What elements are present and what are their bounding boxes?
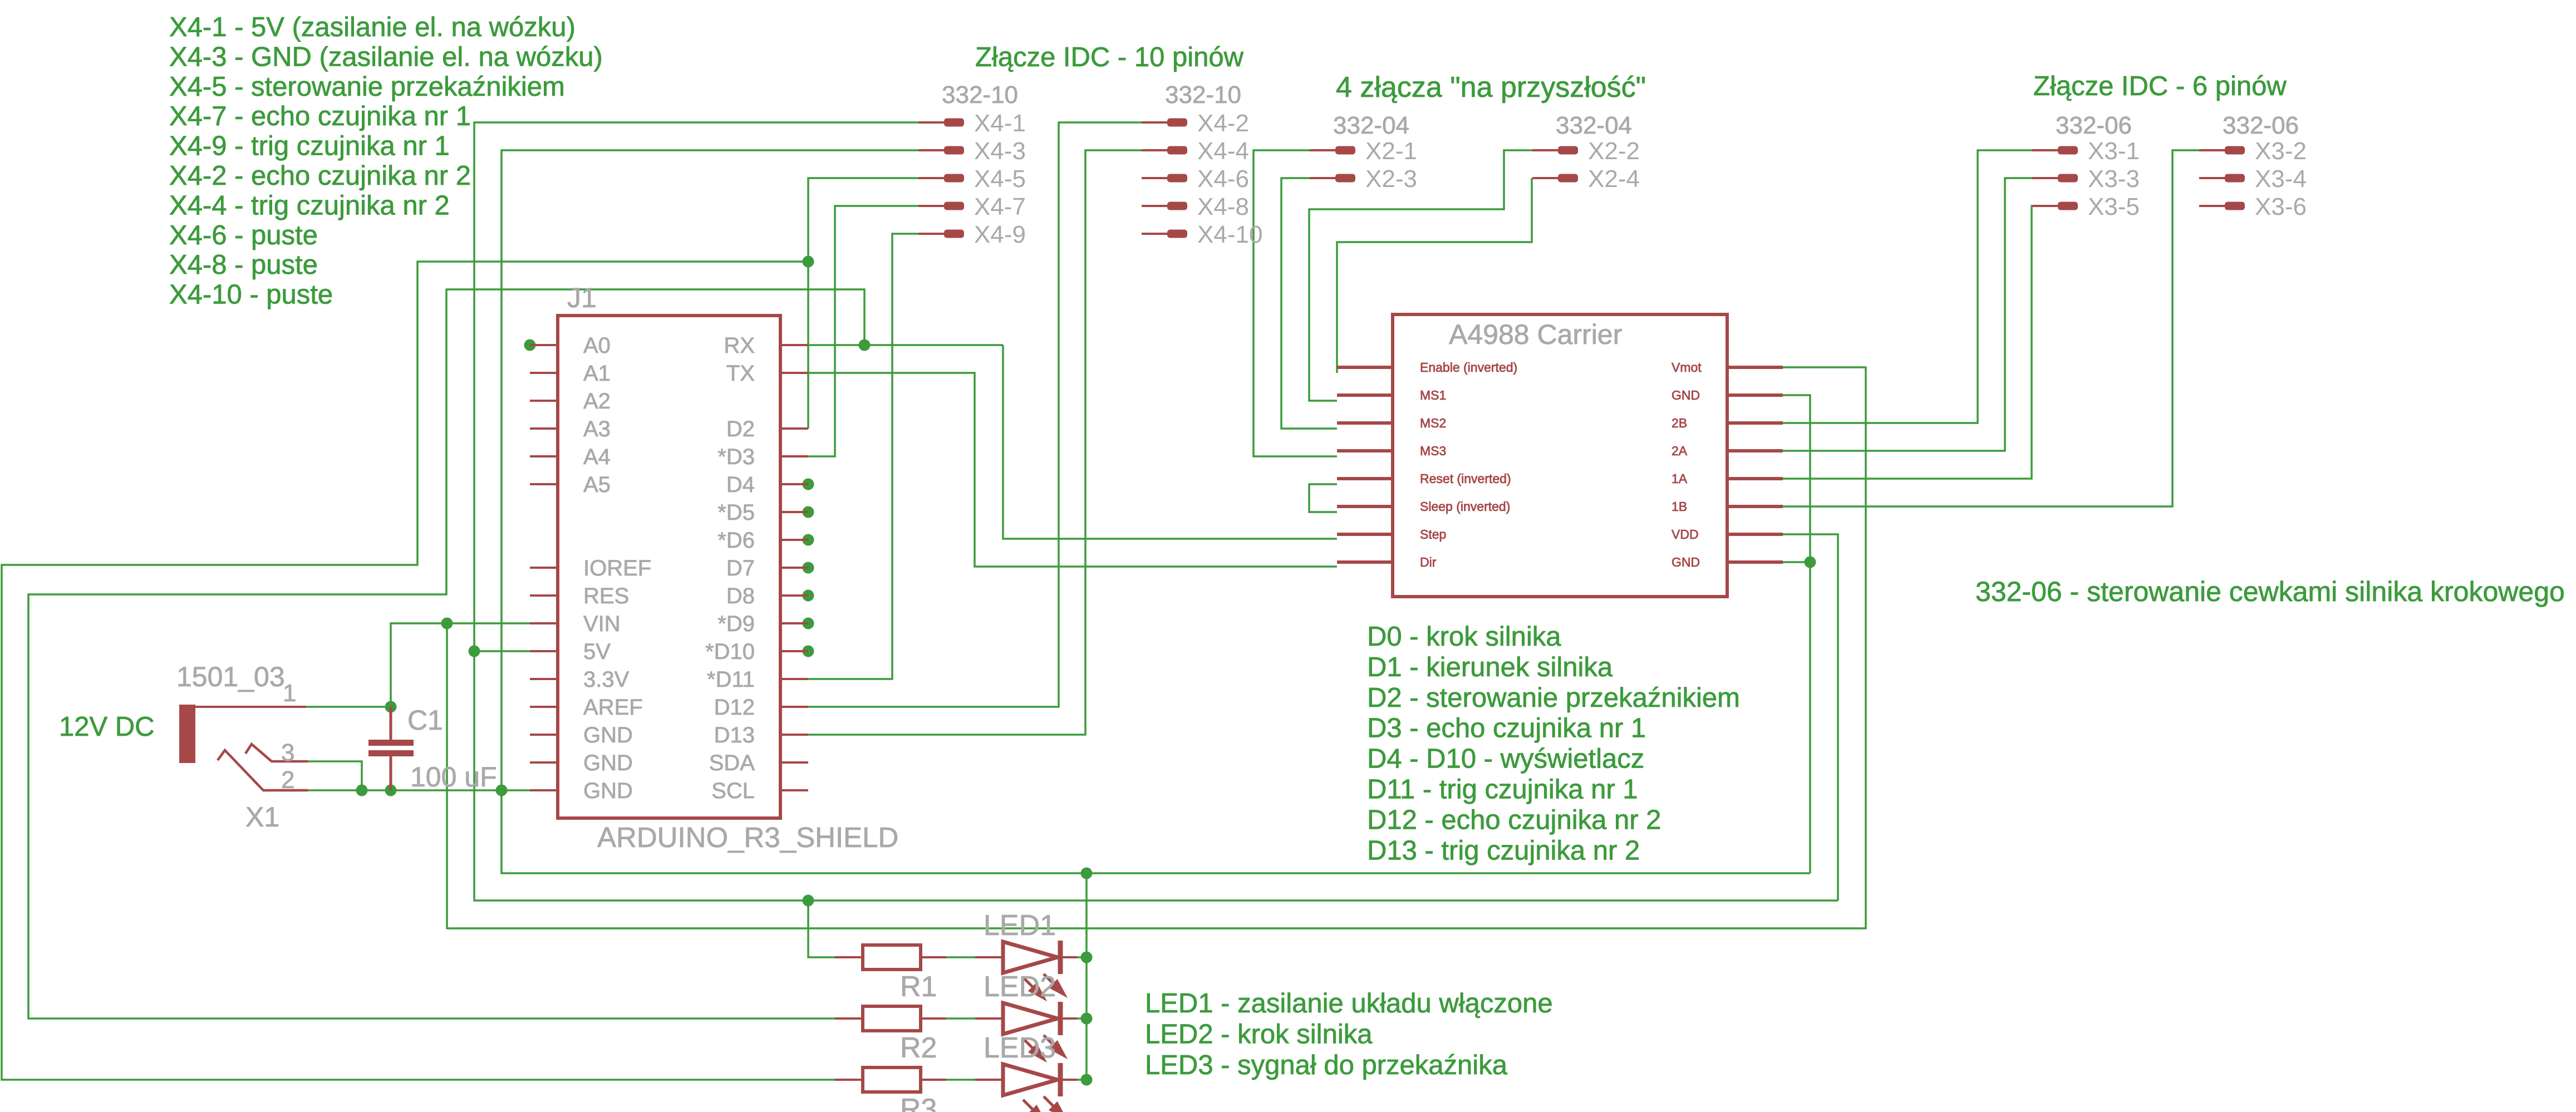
connector pin X3-6 <box>2199 193 2307 220</box>
svg-text:D2 - sterowanie przekaźnikiem: D2 - sterowanie przekaźnikiem <box>1367 683 1740 713</box>
pin J1 D13 stub <box>780 734 808 736</box>
svg-text:Złącze IDC - 6 pinów: Złącze IDC - 6 pinów <box>2033 71 2287 101</box>
wire 2A to X3-3 <box>1783 178 2032 451</box>
svg-text:D4: D4 <box>726 473 755 497</box>
svg-text:Dir: Dir <box>1420 555 1437 569</box>
svg-text:Step: Step <box>1420 527 1446 542</box>
wire R2 to LED2 <box>946 1017 975 1020</box>
connector pin X3-5 <box>2032 193 2140 220</box>
svg-text:D12: D12 <box>714 695 755 720</box>
svg-text:SDA: SDA <box>709 751 755 775</box>
svg-text:LED1: LED1 <box>984 909 1056 942</box>
node D5 display junction <box>803 506 814 518</box>
jack X1 body <box>179 705 195 763</box>
svg-text:Złącze IDC - 10 pinów: Złącze IDC - 10 pinów <box>975 42 1244 72</box>
svg-text:A5: A5 <box>583 473 611 497</box>
node LED2 cathode junction <box>1081 1013 1093 1025</box>
svg-text:A0: A0 <box>583 333 611 358</box>
pin J1 TX stub <box>780 372 808 374</box>
svg-text:X4-4: X4-4 <box>1197 137 1249 165</box>
pin A4988 Reset (inverted) stub <box>1337 477 1393 480</box>
pin A4988 MS1 stub <box>1337 393 1393 397</box>
svg-text:LED2 - krok silnika: LED2 - krok silnika <box>1145 1020 1373 1050</box>
node GND pin3 junction <box>356 785 368 796</box>
node D7 display junction <box>803 562 814 574</box>
pin J1 A3 stub <box>530 427 558 430</box>
resistor R3 body <box>863 1067 921 1092</box>
svg-text:X4-1: X4-1 <box>974 110 1026 137</box>
svg-text:X4-3: X4-3 <box>974 137 1026 165</box>
svg-text:LED2: LED2 <box>984 971 1056 1003</box>
wire D2 X4-5 <box>808 178 918 429</box>
capacitor C1 bottom lead <box>390 756 392 790</box>
svg-text:3.3V: 3.3V <box>583 667 630 692</box>
LED3 cathode lead <box>1060 1079 1077 1081</box>
svg-text:X4-2: X4-2 <box>1197 110 1249 137</box>
svg-text:12V DC: 12V DC <box>59 712 155 742</box>
svg-text:1B: 1B <box>1672 499 1687 514</box>
svg-text:SCL: SCL <box>711 779 755 803</box>
pin J1 D7 stub <box>780 567 808 569</box>
svg-text:VIN: VIN <box>583 612 621 636</box>
resistor R1 leads <box>835 956 946 958</box>
wire 5V row to J1 <box>474 650 530 652</box>
pin J1 *D11 stub <box>780 678 808 680</box>
pin J1 A4 stub <box>530 455 558 457</box>
pin J1 A1 stub <box>530 372 558 374</box>
LED3 emission arrows <box>1023 1096 1064 1112</box>
LED1 emission arrows <box>1023 974 1064 998</box>
svg-text:LED3: LED3 <box>984 1032 1056 1064</box>
svg-text:VDD: VDD <box>1672 527 1699 542</box>
svg-text:D12 - echo czujnika nr 2: D12 - echo czujnika nr 2 <box>1367 805 1661 835</box>
pin J1 3.3V stub <box>530 678 558 680</box>
wire D11 X4-9 <box>808 234 918 679</box>
wire 2B to X3-1 <box>1783 150 2032 423</box>
LED1 cathode bar <box>1058 941 1063 974</box>
pin J1 A0 stub <box>530 344 558 346</box>
svg-text:332-10: 332-10 <box>1165 81 1241 109</box>
wire X2-2 to MS1 <box>1309 150 1532 401</box>
svg-text:D3 - echo czujnika nr 1: D3 - echo czujnika nr 1 <box>1367 714 1646 744</box>
pin A4988 1A right stub <box>1727 477 1783 480</box>
wire jack pin3 to GND row <box>306 761 362 790</box>
wire LED1 to cathode rail <box>1077 956 1087 958</box>
node GND C1 junction <box>385 785 397 796</box>
svg-text:GND: GND <box>583 723 633 747</box>
wire 5V branch to R1 <box>808 901 835 957</box>
svg-text:GND: GND <box>583 751 633 775</box>
svg-text:X1: X1 <box>245 801 279 833</box>
connector pin X3-2 <box>2199 137 2307 165</box>
shield J1 outline <box>558 316 780 818</box>
connector pin X4-6 <box>1142 165 1249 193</box>
connector pin X4-5 <box>918 165 1026 193</box>
wire D13 to X4-4 <box>808 150 1142 735</box>
capacitor C1 plates <box>368 740 414 756</box>
pin J1 *D10 stub <box>780 650 808 652</box>
svg-text:5V: 5V <box>583 639 611 664</box>
pin A4988 GND right stub <box>1727 560 1783 564</box>
svg-text:1A: 1A <box>1672 471 1688 486</box>
node D6 display junction <box>803 534 814 546</box>
jack X1 pin3 contact <box>245 744 308 761</box>
svg-text:A4: A4 <box>583 445 611 469</box>
svg-text:100 uF: 100 uF <box>410 761 497 793</box>
wire 5V X4-1 <box>474 122 1838 901</box>
svg-text:X3-2: X3-2 <box>2255 137 2307 165</box>
wire R3 to LED3 <box>946 1079 975 1081</box>
svg-text:*D10: *D10 <box>705 639 755 664</box>
wire LED2 to cathode rail <box>1077 1017 1087 1020</box>
resistor R3 leads <box>835 1079 946 1081</box>
wire 1A to X3-5 <box>1783 206 2032 479</box>
svg-text:X4-9: X4-9 <box>974 221 1026 248</box>
node GND A4988 junction <box>1805 557 1816 568</box>
wire GND jack row <box>306 789 530 791</box>
svg-text:D2: D2 <box>726 417 755 441</box>
jack X1 pin2 contact <box>218 750 308 790</box>
svg-text:*D3: *D3 <box>717 445 755 469</box>
connector pin X4-4 <box>1142 137 1249 165</box>
svg-text:X4-10: X4-10 <box>1197 221 1262 248</box>
wire D3 X4-7 <box>808 206 918 456</box>
LED1 anode lead <box>975 956 1003 958</box>
wire step west branch to R2 <box>28 289 864 1018</box>
resistor R1 body <box>863 945 921 970</box>
wire GND X4-3 <box>502 150 1810 873</box>
connector pin X4-7 <box>918 193 1026 220</box>
wire 12V up to VIN row <box>391 623 530 707</box>
node LED1 cathode junction <box>1081 952 1093 963</box>
connector pin X3-4 <box>2199 165 2307 193</box>
wire LED3 to cathode rail <box>1077 1079 1087 1081</box>
connector pin X2-1 <box>1310 137 1417 165</box>
pin A4988 1B right stub <box>1727 505 1783 508</box>
svg-text:1501_03: 1501_03 <box>176 661 285 692</box>
resistor R2 body <box>863 1006 921 1031</box>
pin J1 D2 stub <box>780 427 808 430</box>
svg-text:LED1 - zasilanie układu włączo: LED1 - zasilanie układu włączone <box>1145 988 1553 1018</box>
LED2 cathode lead <box>1060 1017 1077 1020</box>
svg-text:X4-1 - 5V (zasilanie el. na wó: X4-1 - 5V (zasilanie el. na wózku) <box>169 12 576 42</box>
LED3 cathode bar <box>1058 1063 1063 1096</box>
connector pin X4-9 <box>918 221 1026 248</box>
svg-text:MS2: MS2 <box>1420 416 1446 430</box>
resistor R2 leads <box>835 1017 946 1020</box>
svg-text:2B: 2B <box>1672 416 1687 430</box>
svg-text:D7: D7 <box>726 556 755 580</box>
wire 5V up to VDD <box>1783 534 1838 901</box>
connector pin X2-3 <box>1310 165 1417 193</box>
svg-text:RES: RES <box>583 584 629 608</box>
node D10 display junction <box>803 646 814 657</box>
svg-text:A3: A3 <box>583 417 611 441</box>
pin A4988 Sleep (inverted) stub <box>1337 505 1393 508</box>
wire X2-4 to Enable <box>1337 178 1532 373</box>
pin J1 GND stub <box>530 789 558 791</box>
pin J1 *D9 stub <box>780 622 808 624</box>
wire 12V branch down to bottom rail <box>447 367 1866 928</box>
svg-text:332-04: 332-04 <box>1333 112 1409 139</box>
pin J1 A2 stub <box>530 400 558 402</box>
svg-text:D4 - D10 - wyświetlacz: D4 - D10 - wyświetlacz <box>1367 744 1644 774</box>
svg-text:X3-6: X3-6 <box>2255 193 2307 220</box>
node D9 display junction <box>803 618 814 629</box>
svg-text:X2-1: X2-1 <box>1365 137 1417 165</box>
pin J1 AREF stub <box>530 706 558 708</box>
LED1 triangle <box>1003 942 1058 973</box>
svg-text:C1: C1 <box>407 705 443 736</box>
svg-text:D1 - kierunek silnika: D1 - kierunek silnika <box>1367 652 1613 682</box>
svg-text:X3-3: X3-3 <box>2088 165 2140 193</box>
connector pin X3-3 <box>2032 165 2140 193</box>
svg-text:A2: A2 <box>583 389 611 414</box>
svg-text:MS3: MS3 <box>1420 444 1446 458</box>
svg-text:X3-5: X3-5 <box>2088 193 2140 220</box>
svg-text:1: 1 <box>283 680 296 707</box>
svg-text:D13 - trig czujnika nr 2: D13 - trig czujnika nr 2 <box>1367 835 1640 865</box>
wire 1B to X3-2 <box>1783 150 2199 506</box>
pin A4988 MS3 stub <box>1337 449 1393 452</box>
node 12V C1 junction <box>385 701 397 713</box>
pin J1 VIN stub <box>530 622 558 624</box>
pin J1 IOREF stub <box>530 567 558 569</box>
node 12V VIN junction <box>441 618 453 629</box>
svg-text:Enable (inverted): Enable (inverted) <box>1420 360 1517 375</box>
svg-text:Vmot: Vmot <box>1672 360 1702 375</box>
pin J1 *D3 stub <box>780 455 808 457</box>
svg-text:332-10: 332-10 <box>942 81 1018 109</box>
svg-text:J1: J1 <box>567 282 597 313</box>
pin A4988 GND right stub <box>1727 393 1783 397</box>
LED2 triangle <box>1003 1003 1058 1034</box>
connector pin X4-1 <box>918 110 1026 137</box>
svg-text:332-06 - sterowanie cewkami si: 332-06 - sterowanie cewkami silnika krok… <box>1975 576 2565 607</box>
pin J1 GND stub <box>530 734 558 736</box>
svg-text:AREF: AREF <box>583 695 643 720</box>
connector pin X2-2 <box>1532 137 1640 165</box>
svg-text:2A: 2A <box>1672 444 1688 458</box>
svg-text:X3-1: X3-1 <box>2088 137 2140 165</box>
LED2 cathode bar <box>1058 1002 1063 1035</box>
connector pin X4-2 <box>1142 110 1249 137</box>
svg-text:332-04: 332-04 <box>1556 112 1632 139</box>
connector pin X2-4 <box>1532 165 1640 193</box>
svg-text:X4-7 - echo czujnika nr 1: X4-7 - echo czujnika nr 1 <box>169 101 471 131</box>
svg-text:Sleep (inverted): Sleep (inverted) <box>1420 499 1510 514</box>
pin J1 RX stub <box>780 344 808 346</box>
wire X2-1 to MS3 <box>1253 150 1337 456</box>
pin A4988 VDD right stub <box>1727 533 1783 536</box>
node 5V row junction <box>469 646 480 657</box>
svg-text:X4-4 - trig czujnika nr 2: X4-4 - trig czujnika nr 2 <box>169 190 450 220</box>
svg-text:X4-5: X4-5 <box>974 165 1026 193</box>
module U1 A4988 outline <box>1393 314 1727 597</box>
svg-text:X4-3 - GND (zasilanie el. na w: X4-3 - GND (zasilanie el. na wózku) <box>169 42 603 72</box>
wire GND up to A4988 <box>1783 395 1810 873</box>
pin A4988 2A right stub <box>1727 449 1783 452</box>
svg-text:TX: TX <box>726 361 755 386</box>
wire R1 to LED1 <box>946 956 975 958</box>
pin J1 SDA stub <box>780 761 808 764</box>
svg-text:*D5: *D5 <box>717 500 755 525</box>
svg-text:X4-6 - puste: X4-6 - puste <box>169 220 318 250</box>
pin J1 *D5 stub <box>780 511 808 513</box>
svg-text:GND: GND <box>1672 388 1700 402</box>
capacitor C1 top lead <box>390 707 392 741</box>
node D4 display junction <box>803 479 814 490</box>
node A0 junction <box>524 339 536 351</box>
wire D12 to X4-2 <box>808 122 1142 707</box>
LED2 emission arrows <box>1023 1035 1064 1059</box>
svg-text:D8: D8 <box>726 584 755 608</box>
jack X1 pin1 lead <box>195 706 306 708</box>
svg-text:D11 - trig czujnika nr 1: D11 - trig czujnika nr 1 <box>1367 775 1638 805</box>
connector pin X3-1 <box>2032 137 2140 165</box>
wire relay west branch <box>2 262 835 1080</box>
svg-text:2: 2 <box>281 766 294 794</box>
svg-text:X2-2: X2-2 <box>1588 137 1640 165</box>
pin A4988 2B right stub <box>1727 421 1783 425</box>
pin A4988 Step stub <box>1337 533 1393 536</box>
connector pin X4-8 <box>1142 193 1249 220</box>
svg-text:IOREF: IOREF <box>583 556 651 580</box>
connector pin X4-3 <box>918 137 1026 165</box>
pin J1 D4 stub <box>780 483 808 485</box>
LED1 cathode lead <box>1060 956 1077 958</box>
wire TX to Dir <box>808 373 1337 567</box>
svg-text:A4988 Carrier: A4988 Carrier <box>1449 319 1622 350</box>
LED2 anode lead <box>975 1017 1003 1020</box>
svg-text:X2-3: X2-3 <box>1365 165 1417 193</box>
pin J1 GND stub <box>530 761 558 764</box>
svg-text:R2: R2 <box>900 1032 937 1064</box>
pin A4988 Vmot right stub <box>1727 366 1783 369</box>
svg-text:LED3 - sygnał do przekaźnika: LED3 - sygnał do przekaźnika <box>1145 1050 1508 1080</box>
svg-text:*D11: *D11 <box>707 667 755 692</box>
node GND rail junction <box>1081 868 1093 879</box>
pin J1 D12 stub <box>780 706 808 708</box>
svg-text:D13: D13 <box>714 723 755 747</box>
pin J1 5V stub <box>530 650 558 652</box>
svg-text:Reset (inverted): Reset (inverted) <box>1420 471 1511 486</box>
wire Reset to Sleep <box>1309 484 1337 512</box>
LED3 anode lead <box>975 1079 1003 1081</box>
pin J1 D8 stub <box>780 594 808 597</box>
svg-text:4 złącza "na przyszłość": 4 złącza "na przyszłość" <box>1336 71 1646 104</box>
svg-text:D0 - krok silnika: D0 - krok silnika <box>1367 622 1561 652</box>
node LED3 cathode junction <box>1081 1074 1093 1086</box>
pin J1 *D6 stub <box>780 539 808 541</box>
wire X2-3 to MS2 <box>1281 178 1337 429</box>
svg-text:GND: GND <box>1672 555 1700 569</box>
svg-text:332-06: 332-06 <box>2223 112 2299 139</box>
svg-text:ARDUINO_R3_SHIELD: ARDUINO_R3_SHIELD <box>597 821 898 853</box>
svg-text:X3-4: X3-4 <box>2255 165 2307 193</box>
pin J1 SCL stub <box>780 789 808 791</box>
node step branch junction <box>859 339 871 351</box>
svg-text:X4-5 - sterowanie przekaźnikie: X4-5 - sterowanie przekaźnikiem <box>169 72 565 102</box>
wire RX to Step <box>1003 345 1337 539</box>
pin A4988 Enable (inverted) stub <box>1337 366 1393 369</box>
wire GND A4988 pin GND2 <box>1783 561 1810 563</box>
node relay branch junction <box>803 256 814 268</box>
LED3 triangle <box>1003 1064 1058 1095</box>
wire RX east <box>808 344 1003 346</box>
svg-text:332-06: 332-06 <box>2056 112 2132 139</box>
node D8 display junction <box>803 590 814 602</box>
svg-text:*D6: *D6 <box>717 528 755 553</box>
pin J1 A5 stub <box>530 483 558 485</box>
svg-text:RX: RX <box>724 333 755 358</box>
svg-text:X4-9 - trig czujnika nr 1: X4-9 - trig czujnika nr 1 <box>169 131 450 161</box>
svg-text:X4-7: X4-7 <box>974 193 1026 220</box>
node GND column junction <box>496 785 508 796</box>
svg-text:X2-4: X2-4 <box>1588 165 1640 193</box>
svg-text:X4-10 - puste: X4-10 - puste <box>169 280 333 310</box>
node 5V R1 junction <box>803 895 814 907</box>
pin A4988 Dir stub <box>1337 560 1393 564</box>
svg-text:X4-8 - puste: X4-8 - puste <box>169 250 318 280</box>
pin J1 RES stub <box>530 594 558 597</box>
pin A4988 MS2 stub <box>1337 421 1393 425</box>
svg-text:3: 3 <box>281 739 294 766</box>
svg-text:*D9: *D9 <box>717 612 755 636</box>
svg-text:X4-8: X4-8 <box>1197 193 1249 220</box>
svg-text:R1: R1 <box>900 971 937 1003</box>
svg-text:X4-2 - echo czujnika nr 2: X4-2 - echo czujnika nr 2 <box>169 161 471 191</box>
svg-text:MS1: MS1 <box>1420 388 1446 402</box>
svg-text:R3: R3 <box>900 1093 937 1112</box>
svg-text:A1: A1 <box>583 361 611 386</box>
svg-text:X4-6: X4-6 <box>1197 165 1249 193</box>
wire GND LED cathode column <box>1085 873 1088 1080</box>
wire 12V jack pin1 to C1 junction <box>306 706 391 708</box>
connector pin X4-10 <box>1142 221 1262 248</box>
svg-text:GND: GND <box>583 779 633 803</box>
